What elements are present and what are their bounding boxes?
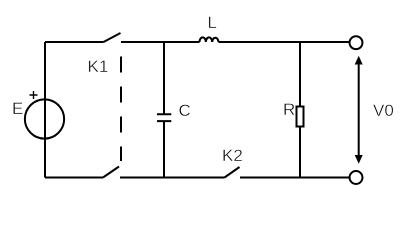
svg-text:V0: V0: [373, 101, 394, 120]
resistor R body: [297, 107, 304, 127]
terminal top-right: [350, 36, 363, 49]
switch K2 blade: [225, 167, 240, 178]
wire capacitor branch lower: [163, 122, 165, 178]
wire top-left horizontal from source to switch K1: [45, 41, 104, 43]
wire bottom from K1 contact to switch K2: [120, 177, 225, 179]
voltage source E circle: [25, 99, 64, 138]
capacitor C plates: [157, 114, 171, 121]
wire bottom from K2 contact to bottom terminal: [240, 177, 350, 179]
terminal bottom-right: [350, 171, 363, 184]
svg-text:E: E: [12, 99, 23, 118]
switch K1 dashed mechanical link: [120, 57, 122, 162]
switch K1 top pole blade: [104, 33, 121, 42]
wire top from inductor to top terminal: [219, 41, 350, 43]
svg-text:L: L: [208, 13, 217, 32]
wire resistor branch lower: [299, 127, 301, 178]
svg-text:R: R: [283, 100, 295, 119]
svg-text:K2: K2: [222, 146, 243, 165]
switch K1 bottom pole blade: [103, 167, 119, 178]
V0 measurement arrow: [355, 56, 363, 164]
svg-text:K1: K1: [88, 57, 109, 76]
wire left vertical through source E: [44, 42, 46, 178]
wire capacitor branch upper: [163, 42, 165, 114]
inductor L: [200, 37, 219, 42]
voltage source plus sign: [30, 91, 38, 99]
svg-text:C: C: [179, 101, 191, 120]
wire top from K1 contact to inductor: [121, 41, 200, 43]
wire resistor branch upper: [299, 42, 301, 107]
wire bottom-left horizontal from source to K1 bottom pole: [45, 177, 103, 179]
